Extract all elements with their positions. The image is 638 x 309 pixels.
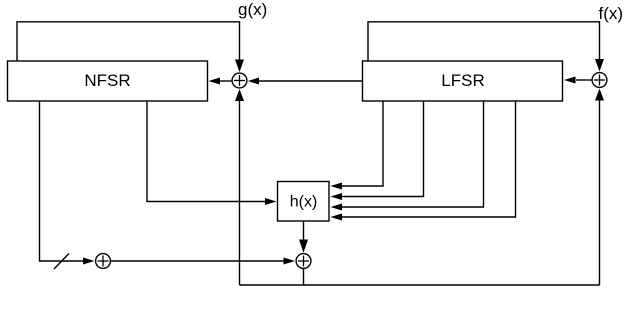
arrowhead into h(x) tap1	[331, 183, 343, 190]
arrowhead down into X2	[595, 59, 604, 72]
xor X4 circle (output)	[296, 254, 311, 269]
wire feedback vertical to XOR2 bottom	[599, 99, 601, 285]
wire LFSR output to XOR1	[258, 80, 363, 82]
wire LFSR tap 2 to h(x)	[341, 101, 424, 197]
arrowhead left into LFSR	[564, 77, 576, 84]
xor X3 plus	[98, 260, 109, 262]
register NFSR box	[8, 61, 208, 101]
wire f-loop: LFSR top feedback to XOR2	[368, 22, 600, 61]
wire XOR1 to NFSR	[219, 80, 232, 82]
xor X1 circle (NFSR input)	[232, 73, 247, 88]
arrowhead left into X1	[248, 78, 259, 85]
svg-text:LFSR: LFSR	[441, 71, 484, 90]
arrowhead down into X1	[235, 60, 244, 73]
register LFSR box	[363, 61, 563, 101]
function h(x) box	[278, 182, 330, 222]
wire g-loop: NFSR top feedback to XOR1	[17, 22, 240, 61]
wire LFSR tap 1 to h(x)	[341, 101, 383, 186]
arrowhead up into X2	[595, 89, 604, 101]
xor X1 plus	[234, 80, 245, 82]
wire NFSR tap to h(x)	[147, 101, 266, 202]
wire XOR2 to LFSR	[576, 79, 592, 81]
arrowhead up into X1	[235, 89, 244, 101]
xor X3 circle (masking bits)	[96, 254, 111, 269]
arrowhead into h(x) tap3	[331, 204, 343, 211]
wire feedback vertical to XOR1 bottom	[239, 99, 241, 285]
xor X2 plus	[594, 79, 605, 81]
xor X2 circle (LFSR input)	[592, 73, 607, 88]
svg-text:f(x): f(x)	[599, 4, 624, 23]
wire XOR3 to XOR4	[111, 260, 285, 262]
wire bottom feedback bus	[240, 284, 600, 286]
wire bit-width slash	[54, 254, 69, 270]
wire NFSR tap to XOR3	[40, 101, 85, 261]
xor X4 plus	[298, 260, 309, 262]
svg-text:NFSR: NFSR	[84, 71, 130, 90]
wire h(x) output to XOR4	[303, 221, 305, 242]
arrowhead into h(x) tap4	[331, 214, 343, 221]
arrowhead left into NFSR	[209, 78, 221, 85]
wire XOR4 to bottom bus	[303, 269, 305, 286]
arrowhead right into h(x)	[265, 198, 277, 205]
svg-text:h(x): h(x)	[290, 194, 318, 211]
svg-text:g(x): g(x)	[238, 0, 267, 19]
arrowhead right into X3	[83, 258, 95, 265]
arrowhead down into X4	[299, 240, 308, 253]
arrowhead into h(x) tap2	[331, 193, 343, 200]
wire LFSR tap 3 to h(x)	[341, 101, 484, 207]
wire LFSR tap 4 to h(x)	[341, 101, 516, 217]
arrowhead right into X4	[284, 258, 296, 265]
